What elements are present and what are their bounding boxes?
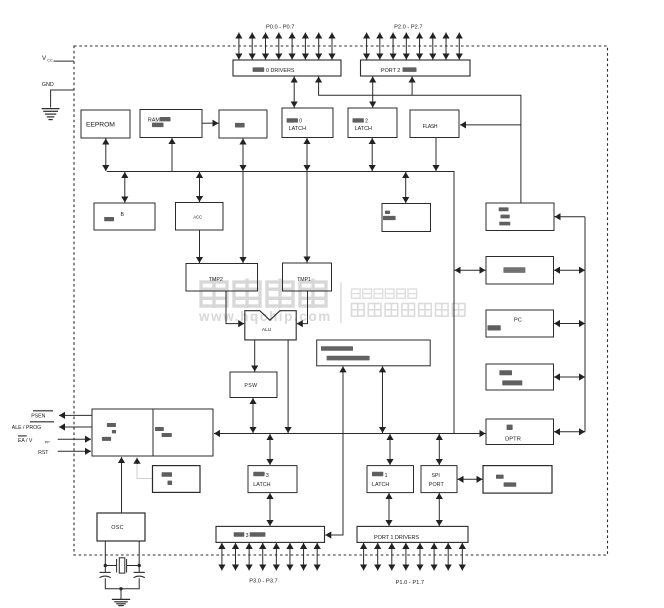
wire: RAM to bus: [242, 139, 244, 172]
stack pointer block: [382, 204, 431, 232]
timing and control block: [92, 409, 153, 456]
Vcc wire: [54, 60, 75, 62]
svg-text:LATCH: LATCH: [253, 482, 270, 488]
TMP2 block: [186, 264, 258, 292]
program address register block: [486, 203, 554, 231]
svg-text:PORT 2: PORT 2: [381, 68, 400, 74]
wire: feedback bus to port drivers and program address register: [319, 77, 521, 203]
ALU block: [245, 311, 296, 340]
wire: caps to ground rail: [105, 578, 139, 589]
wire: trunk into program address register: [555, 216, 586, 218]
node: XTAL1 junction: [104, 564, 107, 567]
watermark text line 1 (hua qiang ji tuan qi xia): [352, 289, 417, 298]
wire: TMP2 to ALU left input: [226, 291, 244, 324]
B register block: [94, 203, 155, 230]
svg-text:PORT: PORT: [429, 482, 445, 488]
capacitor C1: [100, 572, 111, 577]
port 3 pin arrows P3.0-P3.7 (8 bidirectional): [222, 543, 317, 571]
svg-text:GND: GND: [42, 82, 54, 88]
watermark logo char 3 (xin): [267, 279, 293, 309]
wire: port3 latch to port3 drivers: [269, 493, 271, 526]
ALE/PROG output arrow: [59, 426, 92, 428]
watchdog block: [153, 466, 201, 493]
capacitor C2: [134, 572, 145, 577]
RAM block: [219, 110, 267, 138]
wire: watchdog to timing and control (gray elbow): [137, 462, 152, 479]
svg-text:RAM: RAM: [148, 117, 160, 123]
svg-text:PSEN: PSEN: [31, 413, 45, 419]
PC incrementer block: [486, 310, 554, 337]
port 3 latch block: [248, 466, 297, 493]
lower internal bus into instruction register: [214, 433, 454, 435]
RAM address register block: [140, 110, 202, 138]
wire: port0 latch to bus: [306, 138, 308, 171]
wire: trunk to program counter: [554, 376, 585, 378]
watermark divider bar: [340, 282, 342, 323]
svg-text:ALU: ALU: [262, 327, 272, 333]
watermark text line 2 (yuan qi jian zai xian shang cheng): [352, 304, 465, 317]
wire: interrupt block to lower bus: [382, 366, 384, 433]
svg-text:0: 0: [299, 119, 302, 125]
svg-text:EEPROM: EEPROM: [86, 122, 115, 129]
program counter block: [486, 364, 554, 390]
wire: port1 latch to port1 drivers: [388, 493, 390, 526]
wire: bus to RAM addr register: [171, 138, 173, 171]
RST input arrow: [58, 450, 91, 452]
wire: port0 drivers to port0 latch: [293, 77, 295, 108]
svg-text:ALE / PROG: ALE / PROG: [12, 425, 41, 431]
DPTR block: [486, 419, 554, 445]
wire: ACC to TMP2: [199, 230, 201, 263]
svg-text:3: 3: [246, 533, 249, 539]
interrupt serial port and timer block: [317, 340, 431, 366]
port 0 drivers block: [233, 60, 341, 76]
buffer block: [486, 257, 554, 285]
wire: ground stub: [120, 589, 122, 599]
port 3 drivers block: [216, 526, 325, 542]
svg-text:P2.0 - P2.7: P2.0 - P2.7: [394, 24, 422, 30]
svg-text:3: 3: [266, 473, 269, 479]
wire: trunk to DPTR: [554, 431, 585, 433]
svg-text:2: 2: [365, 119, 368, 125]
svg-text:EA / V: EA / V: [18, 438, 33, 444]
svg-text:B: B: [121, 212, 125, 218]
svg-text:P1.0 - P1.7: P1.0 - P1.7: [396, 580, 424, 586]
watermark logo char 4 (cheng): [300, 279, 326, 309]
EA/Vpp input arrow: [58, 438, 91, 440]
ACC block: [176, 203, 224, 231]
node: XTAL2 junction: [138, 564, 141, 567]
FLASH block: [410, 110, 459, 138]
wire: PSW to lower bus: [252, 398, 254, 433]
OSC block: [97, 513, 145, 541]
watermark logo char 2 (qiang): [234, 279, 260, 309]
ground symbol (crystal): [112, 599, 130, 605]
SPI port block: [421, 466, 457, 493]
svg-text:DPTR: DPTR: [505, 436, 521, 442]
wire: branch left into FLASH: [460, 124, 521, 126]
wire: trunk to buffer: [554, 269, 585, 271]
wire: SPI port to programming logic: [458, 478, 483, 480]
svg-text:0 DRIVERS: 0 DRIVERS: [266, 68, 295, 74]
svg-text:TMP2: TMP2: [209, 277, 223, 283]
wire: lower bus to port1 latch: [389, 434, 391, 465]
watermark logo char 1 (hua): [201, 279, 227, 309]
wire: bus to stack pointer: [405, 172, 407, 203]
wire: lower bus to port3 latch: [269, 434, 271, 465]
crystal Y1: [105, 558, 139, 573]
port 2 pin arrows P2.0-P2.7 (8 bidirectional): [367, 33, 460, 60]
instruction register block: [153, 409, 213, 456]
port 2 drivers block: [361, 60, 471, 76]
svg-text:LATCH: LATCH: [355, 126, 372, 132]
EA overline: [18, 435, 27, 437]
block fill layer (background fills under watermark): [81, 60, 554, 542]
port 0 latch block: [282, 108, 333, 138]
svg-text:RST: RST: [38, 450, 49, 456]
wire: buffer to bus trunk (left): [455, 269, 486, 271]
wire: SPI port to port1 drivers: [438, 493, 440, 526]
wire: ALU to PSW: [254, 340, 256, 372]
wire: bus to TMP1: [306, 172, 308, 263]
svg-text:SPI: SPI: [432, 473, 440, 479]
ground symbol (top left): [42, 109, 60, 120]
svg-text:P0.0 - P0.7: P0.0 - P0.7: [266, 24, 294, 30]
port 1 latch block: [367, 466, 414, 493]
wire: bus to TMP2 (second input): [242, 172, 244, 264]
svg-text:PORT 1 DRIVERS: PORT 1 DRIVERS: [374, 535, 419, 541]
TMP1 block: [283, 263, 332, 291]
port 2 latch block: [348, 108, 397, 138]
svg-text:FLASH: FLASH: [423, 124, 438, 130]
wire: port2 latch to bus: [371, 138, 373, 171]
svg-text:OSC: OSC: [111, 525, 124, 531]
port 0 pin arrows P0.0-P0.7 (8 bidirectional): [239, 33, 332, 60]
port 1 pin arrows P1.0-P1.7 (8 bidirectional): [364, 543, 463, 571]
svg-text:LATCH: LATCH: [372, 482, 389, 488]
chip boundary (dashed border): [74, 46, 608, 555]
GND wire: [51, 90, 74, 108]
EA/Vpp label: [18, 438, 50, 444]
wire: TMP1 to ALU right input: [297, 291, 308, 324]
programming logic block: [483, 466, 552, 494]
wire: trunk to PC incrementer: [554, 323, 585, 325]
Vcc pin label: [42, 55, 53, 63]
PSEN overline: [33, 410, 53, 412]
PSW block: [230, 372, 277, 398]
lower bus into DPTR: [454, 433, 486, 435]
wire: ALU to lower bus: [287, 340, 289, 433]
wire: port2 drivers to port2 latch: [372, 77, 374, 108]
svg-text:PC: PC: [514, 317, 522, 323]
wire: FLASH to bus: [435, 138, 437, 171]
svg-text:ACC: ACC: [193, 215, 202, 220]
wire: OSC XTAL2 leg: [138, 541, 140, 572]
svg-text:CC: CC: [47, 59, 53, 63]
wire: bus to B register: [124, 172, 126, 203]
right trunk line: [584, 217, 586, 432]
wire: bus to ACC: [199, 172, 201, 202]
wire: branch up to port2 drivers: [411, 77, 413, 96]
main internal bus (upper): [107, 172, 454, 434]
node: ground junction: [119, 587, 122, 590]
wire: OSC to timing and control: [121, 457, 123, 513]
wire: lower bus to SPI port: [438, 434, 440, 465]
ALE/PROG overline: [30, 421, 54, 423]
wire: interrupt block to port3 drivers: [325, 366, 343, 535]
svg-text:LATCH: LATCH: [289, 126, 306, 132]
svg-text:PP: PP: [45, 440, 50, 444]
EEPROM block: [81, 110, 130, 138]
wire: EEPROM to bus: [105, 139, 107, 172]
svg-text:PSW: PSW: [244, 383, 257, 389]
svg-text:1: 1: [385, 473, 388, 479]
svg-text:P3.0 - P3.7: P3.0 - P3.7: [249, 579, 277, 585]
svg-text:www.hqchip.com: www.hqchip.com: [198, 309, 332, 324]
svg-text:TMP1: TMP1: [297, 277, 311, 283]
wire: OSC XTAL1 leg: [104, 541, 106, 572]
port 1 drivers block: [357, 526, 468, 542]
wire: RAM addr register to RAM: [203, 122, 219, 124]
PSEN output arrow: [59, 414, 92, 416]
